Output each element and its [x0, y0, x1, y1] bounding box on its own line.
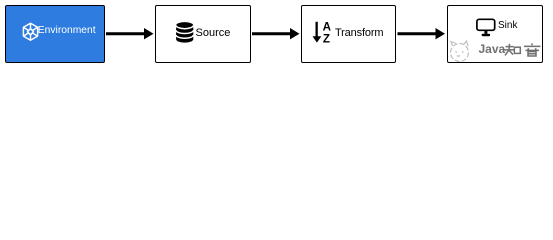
svg-text:Z: Z: [323, 32, 330, 45]
